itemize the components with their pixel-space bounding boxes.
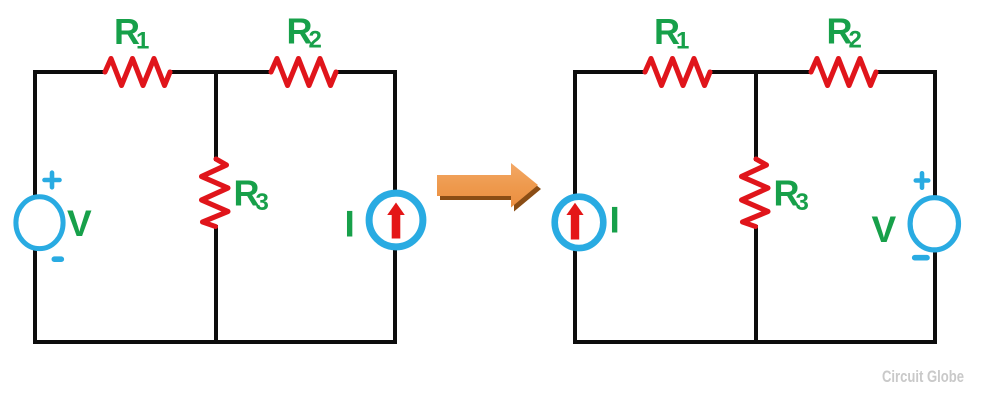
block arrow bbox=[437, 163, 538, 208]
svg-text:1: 1 bbox=[136, 28, 149, 55]
resistor R3 bbox=[202, 159, 229, 227]
wire top-right corner segment (R2 down to current source) bbox=[335, 72, 395, 192]
svg-text:2: 2 bbox=[849, 27, 862, 54]
plus sign bbox=[45, 173, 60, 188]
svg-text:1: 1 bbox=[676, 28, 689, 55]
voltage source V (left circuit) bbox=[16, 197, 63, 249]
wire top-left corner segment (V+ to R1) bbox=[35, 72, 105, 196]
wire bottom loop (V- to bottom to current source) bbox=[35, 248, 395, 342]
wire top-middle segment (R1 to R2) bbox=[170, 70, 271, 74]
svg-text:I: I bbox=[345, 204, 355, 245]
svg-text:Circuit Globe: Circuit Globe bbox=[882, 367, 964, 386]
resistor R3 (right circuit) bbox=[742, 159, 769, 227]
wire middle branch lower bbox=[754, 225, 758, 344]
wire top-left corner segment (I source to R1) bbox=[575, 72, 645, 195]
voltage source V (right circuit) bbox=[910, 198, 958, 250]
wire top-middle segment (R1 to R2) bbox=[710, 70, 811, 74]
wire middle branch lower bbox=[214, 225, 218, 344]
wire top-right corner segment (R2 down to V source) bbox=[875, 72, 935, 196]
svg-text:3: 3 bbox=[796, 189, 809, 216]
current arrow (right source) bbox=[566, 203, 583, 240]
block arrow shadow bbox=[440, 167, 541, 212]
resistor R1 (right circuit) bbox=[645, 59, 710, 86]
svg-text:I: I bbox=[610, 200, 620, 241]
resistor R1 bbox=[105, 59, 170, 86]
minus sign (right) bbox=[915, 255, 927, 261]
plus sign (right) bbox=[916, 173, 928, 187]
svg-text:V: V bbox=[872, 209, 897, 250]
svg-text:3: 3 bbox=[256, 189, 269, 216]
minus sign bbox=[54, 256, 61, 262]
current source I (right circuit) bbox=[555, 197, 604, 248]
current source I (left circuit) bbox=[369, 193, 423, 247]
resistor R2 bbox=[271, 59, 336, 86]
svg-text:V: V bbox=[67, 203, 92, 244]
wire middle branch upper bbox=[214, 70, 218, 161]
svg-text:2: 2 bbox=[309, 27, 322, 54]
wire middle branch upper bbox=[754, 70, 758, 161]
resistor R2 (right circuit) bbox=[811, 59, 876, 86]
wire bottom loop bbox=[575, 250, 935, 342]
current arrow (left source) bbox=[387, 203, 405, 239]
